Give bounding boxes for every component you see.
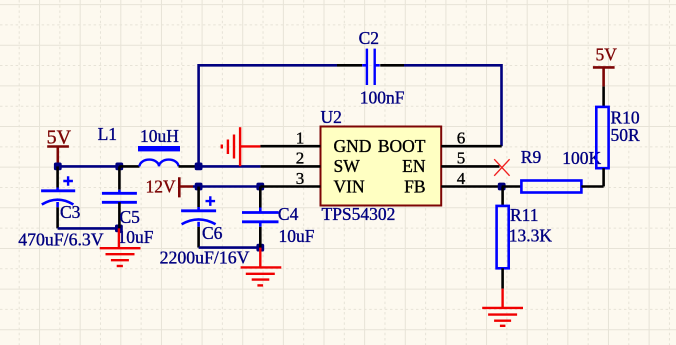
power port 5V (left) <box>47 127 72 167</box>
svg-text:FB: FB <box>404 176 425 196</box>
wire SW riser to C2 <box>199 65 337 166</box>
ground at pin 1 (rotated) <box>222 127 261 166</box>
junction C3/C5 gnd <box>115 225 123 233</box>
svg-text:5: 5 <box>457 149 466 168</box>
pin 2 SW <box>260 149 360 177</box>
svg-text:VIN: VIN <box>334 176 365 196</box>
svg-text:10uF: 10uF <box>279 226 315 246</box>
no-ERC marker X on pin 5 <box>494 159 509 176</box>
svg-text:C5: C5 <box>120 207 141 227</box>
svg-text:BOOT: BOOT <box>378 136 426 156</box>
svg-text:1: 1 <box>296 128 305 147</box>
wire C6 bottom to C4 gnd <box>199 246 261 249</box>
svg-text:4: 4 <box>457 169 466 188</box>
ground below R11 <box>482 289 523 326</box>
IC U2 TPS54302 <box>321 107 442 224</box>
ground below C4 <box>241 248 282 286</box>
inductor L1 <box>98 124 199 166</box>
svg-text:6: 6 <box>457 128 466 147</box>
svg-text:13.3K: 13.3K <box>509 226 553 246</box>
wire 12V rail <box>193 185 260 188</box>
pin 4 FB <box>404 169 502 196</box>
pin 5 EN <box>402 149 499 177</box>
junction C6 top <box>195 183 203 191</box>
svg-text:C6: C6 <box>202 223 223 243</box>
wire C3 bottom to C5 bottom <box>58 227 119 230</box>
pin 3 VIN <box>260 169 365 196</box>
resistor R9 <box>502 147 604 193</box>
ground below C5 <box>100 228 141 266</box>
capacitor C5 <box>102 166 154 247</box>
capacitor C3 <box>18 166 104 249</box>
junction FB node <box>498 183 506 191</box>
wire SW node to pin 2 <box>199 165 261 168</box>
junction at C5 top <box>115 163 123 171</box>
svg-text:10uH: 10uH <box>140 126 179 146</box>
pin 6 BOOT <box>378 128 502 156</box>
svg-text:L1: L1 <box>98 124 117 144</box>
wire 5V rail <box>58 165 119 168</box>
svg-text:10uF: 10uF <box>118 227 154 247</box>
power port 5V (right) <box>593 45 617 87</box>
power port 12V <box>146 177 194 198</box>
svg-text:R9: R9 <box>521 147 542 167</box>
resistor R11 <box>497 187 553 289</box>
svg-text:SW: SW <box>334 156 361 176</box>
capacitor C2 <box>337 28 405 107</box>
svg-text:U2: U2 <box>321 107 342 127</box>
capacitor C4 <box>242 187 315 248</box>
svg-text:R11: R11 <box>510 205 539 225</box>
junction C6/C4 gnd <box>256 244 264 252</box>
svg-text:2: 2 <box>296 149 305 168</box>
pin 1 GND <box>260 128 371 156</box>
junction at 5V flag <box>54 163 62 171</box>
svg-text:3: 3 <box>296 169 305 188</box>
junction C4 top <box>256 183 264 191</box>
svg-text:470uF/6.3V: 470uF/6.3V <box>18 230 104 250</box>
wire C2 to BOOT <box>404 65 502 146</box>
svg-text:12V: 12V <box>146 177 177 197</box>
svg-text:TPS54302: TPS54302 <box>322 204 396 224</box>
svg-text:5V: 5V <box>596 45 618 65</box>
svg-text:100nF: 100nF <box>360 87 405 107</box>
capacitor C6 <box>160 187 250 268</box>
resistor R10 <box>596 86 640 186</box>
svg-text:GND: GND <box>334 136 372 156</box>
svg-text:C2: C2 <box>359 28 379 48</box>
svg-text:50R: 50R <box>611 125 641 145</box>
junction SW node <box>195 163 203 171</box>
svg-text:2200uF/16V: 2200uF/16V <box>160 247 250 267</box>
svg-text:C4: C4 <box>278 204 299 224</box>
svg-text:EN: EN <box>402 156 426 176</box>
svg-text:C3: C3 <box>60 202 81 222</box>
